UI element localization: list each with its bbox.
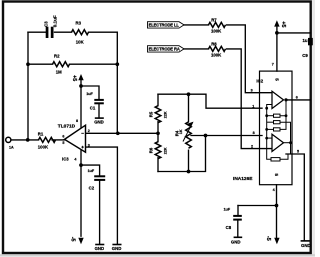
svg-text:10K: 10K [76, 40, 85, 45]
svg-text:5: 5 [274, 174, 279, 177]
svg-text:-5: -5 [265, 236, 271, 241]
svg-text:3: 3 [88, 143, 90, 147]
svg-text:1M: 1M [56, 70, 62, 75]
svg-text:GND: GND [231, 239, 241, 244]
svg-text:1u: 1u [303, 38, 308, 43]
svg-text:1uF: 1uF [88, 169, 95, 173]
svg-text:0.1uF: 0.1uF [52, 15, 57, 27]
svg-text:2: 2 [88, 129, 90, 133]
svg-text:5: 5 [275, 78, 280, 81]
svg-text:1uF: 1uF [86, 92, 93, 96]
svg-text:1: 1 [252, 104, 254, 108]
svg-text:6: 6 [62, 134, 64, 138]
svg-text:5: 5 [62, 141, 64, 145]
svg-text:-5: -5 [70, 237, 76, 242]
svg-text:7: 7 [272, 63, 274, 67]
svg-text:6: 6 [296, 96, 298, 100]
svg-text:1K: 1K [179, 129, 183, 134]
svg-text:ELECTRODE LL: ELECTRODE LL [149, 23, 180, 28]
svg-text:ELECTRODE RA: ELECTRODE RA [149, 47, 180, 52]
svg-text:C2: C2 [89, 186, 95, 191]
svg-text:R3: R3 [76, 21, 82, 26]
svg-text:8: 8 [253, 131, 255, 135]
svg-text:GND: GND [112, 246, 122, 251]
svg-text:R1: R1 [38, 132, 44, 137]
svg-text:C8: C8 [226, 225, 232, 230]
svg-text:R8: R8 [211, 42, 217, 47]
svg-text:GND: GND [95, 246, 105, 251]
svg-text:R2: R2 [54, 54, 60, 59]
svg-text:+5: +5 [71, 75, 77, 81]
svg-text:C9: C9 [302, 53, 308, 58]
svg-text:5: 5 [297, 150, 299, 154]
svg-text:100K: 100K [211, 52, 222, 57]
svg-text:22K: 22K [164, 147, 168, 154]
svg-text:C3: C3 [44, 21, 49, 27]
svg-text:IC2: IC2 [256, 79, 263, 84]
svg-text:22K: 22K [164, 111, 168, 118]
svg-text:GND: GND [301, 243, 311, 248]
svg-text:R5: R5 [148, 111, 153, 117]
svg-text:TL071D: TL071D [58, 123, 76, 129]
svg-text:+5: +5 [280, 21, 286, 27]
svg-text:GND: GND [94, 120, 104, 125]
svg-text:100K: 100K [38, 144, 49, 149]
svg-text:2: 2 [251, 144, 253, 148]
svg-text:C1: C1 [90, 106, 96, 111]
svg-text:1uF: 1uF [224, 207, 231, 211]
svg-text:3: 3 [251, 89, 253, 93]
svg-text:1A: 1A [9, 146, 14, 150]
svg-text:INA126E: INA126E [233, 176, 253, 182]
svg-text:8: 8 [76, 119, 78, 123]
svg-text:IC3: IC3 [62, 157, 69, 162]
svg-text:100K: 100K [211, 28, 222, 33]
svg-text:R6: R6 [148, 147, 153, 153]
svg-text:R7: R7 [211, 18, 217, 23]
